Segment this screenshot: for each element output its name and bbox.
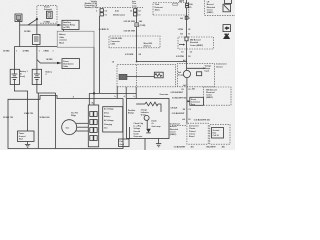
wire regulator ground 1: [144, 139, 146, 151]
wire relay pigtail: [63, 30, 65, 32]
svg-text:Volt: Volt: [178, 71, 182, 74]
theft deterrent dashed box: [153, 3, 189, 16]
svg-text:Junction: Junction: [59, 39, 68, 42]
svg-text:Power: Power: [63, 60, 69, 63]
svg-text:Gauge: Gauge: [178, 74, 184, 76]
wire battery2 drop: [36, 47, 38, 70]
svg-text:Ground: Ground: [134, 130, 141, 133]
wire cluster entry to gauge: [186, 64, 188, 70]
svg-text:Center: Center: [206, 94, 212, 97]
regulator internal label: [141, 108, 149, 116]
arrowhead into relay: [57, 24, 61, 26]
svg-text:Ground: Ground: [213, 129, 220, 132]
pin labels 13 C4 C1: [130, 9, 142, 17]
svg-text:(C3): (C3): [115, 10, 119, 12]
svg-text:Module (PCM): Module (PCM): [85, 7, 98, 9]
instrument cluster dashed box: [177, 64, 214, 87]
battery cable junction block label: [57, 31, 94, 47]
node starter solenoid stud: [36, 18, 38, 20]
svg-text:Used): Used): [20, 76, 26, 78]
svg-text:Charging: Charging: [104, 123, 112, 126]
svg-text:Electrical: Electrical: [170, 128, 179, 131]
resistor box: [154, 72, 163, 78]
wire diagonal from starter solenoid stud: [28, 19, 37, 25]
battery B2: [32, 69, 41, 84]
wire right column down: [186, 8, 188, 37]
svg-text:Center: Center: [170, 130, 176, 133]
svg-text:1 BLK/WHT: 1 BLK/WHT: [206, 146, 217, 148]
wire drop B+ terminal: [93, 93, 95, 105]
svg-text:Cluster: Cluster: [216, 65, 223, 68]
instrument cluster label: [216, 63, 227, 69]
svg-text:32 BLK 600: 32 BLK 600: [40, 117, 50, 119]
svg-text:32 BLK 750: 32 BLK 750: [3, 117, 13, 119]
svg-text:0.8 BLK: 0.8 BLK: [171, 108, 179, 110]
svg-text:32 RED: 32 RED: [24, 31, 31, 33]
pin wire b2: [135, 87, 137, 94]
svg-text:Alarm: Alarm: [155, 8, 161, 11]
svg-text:Battery: Battery: [59, 33, 66, 36]
fusible link icon: [223, 0, 232, 12]
wire inline box to bus: [36, 45, 38, 47]
inline connector box on solenoid feed: [33, 35, 41, 45]
svg-text:(UBEC): (UBEC): [207, 12, 214, 14]
svg-text:C2: C2: [105, 10, 107, 12]
svg-text:0.35 PNK: 0.35 PNK: [176, 56, 185, 58]
pin labels right of VCM pins: [96, 10, 125, 16]
svg-text:Lt + Wrg: Lt + Wrg: [134, 125, 141, 128]
generator rotor circle: [62, 120, 77, 135]
svg-text:Battery Relay: Battery Relay: [63, 24, 76, 27]
wire regulator feed drop: [135, 93, 137, 98]
svg-text:Battery 1: Battery 1: [20, 70, 28, 73]
splice connector on middle wire: [135, 23, 139, 27]
auxiliary battery relay box: [62, 20, 79, 29]
wire into cluster: [186, 49, 188, 62]
svg-text:0.35 BLK/WHT: 0.35 BLK/WHT: [172, 113, 185, 115]
svg-text:450: 450: [222, 145, 225, 148]
VCM / PCM module label: [85, 1, 98, 9]
svg-text:2: 2: [46, 74, 47, 76]
svg-text:1: 1: [16, 50, 17, 52]
arrowhead into PDC box: [57, 62, 62, 65]
svg-text:451: 451: [192, 88, 195, 91]
wire ground stud down: [27, 142, 29, 145]
svg-text:Solenoid: Solenoid: [44, 9, 52, 11]
svg-text:C2: C2: [188, 109, 190, 111]
svg-text:Generator: Generator: [160, 93, 169, 96]
svg-text:Ground: Ground: [19, 135, 26, 138]
pin labels right: [189, 3, 193, 9]
stator label: [128, 109, 143, 138]
wire lamp down: [146, 120, 148, 128]
svg-text:Bridge: Bridge: [128, 112, 134, 115]
VCM dashed bottom edge: [97, 7, 143, 9]
svg-text:Stud: Stud: [19, 137, 23, 140]
svg-text:Gen Lamp: Gen Lamp: [152, 126, 162, 128]
svg-text:28: 28: [188, 29, 190, 31]
svg-text:(C142): (C142): [140, 24, 146, 27]
svg-text:Or: Or: [152, 122, 154, 125]
battery warning icon: [223, 33, 230, 39]
svg-text:G8: G8: [139, 54, 141, 56]
svg-text:Electrical: Electrical: [190, 41, 199, 44]
svg-text:Dist: Dist: [213, 132, 217, 135]
svg-text:Cable: Cable: [59, 37, 64, 39]
MBEC dashed box 1: [178, 37, 214, 49]
wire driver to resistor: [127, 76, 154, 78]
pin wire d: [125, 87, 127, 99]
generator field label: [71, 112, 78, 116]
svg-text:Generator: Generator: [134, 135, 143, 138]
svg-text:F5: F5: [189, 7, 191, 9]
gauge trim box: [197, 72, 202, 76]
regulator case box: [127, 99, 169, 139]
voltmeter gauge circle: [183, 70, 190, 77]
dashed connector box C200: [109, 36, 160, 48]
svg-text:Electrical: Electrical: [207, 6, 216, 9]
svg-text:D8: D8: [183, 109, 185, 111]
wire regulator ground 2: [158, 139, 160, 144]
svg-text:Wired 200: Wired 200: [144, 42, 153, 45]
wire 18 RED branch: [37, 60, 57, 64]
svg-text:1: 1: [39, 50, 40, 52]
left dashed cluster sub-box: [117, 65, 176, 87]
generator case box: [8, 96, 123, 149]
regulator text box: [103, 107, 123, 132]
svg-text:0.8 BRN: 0.8 BRN: [99, 29, 107, 31]
wire K1 branch down to bus: [19, 25, 21, 47]
ground symbol regulator: [156, 144, 161, 147]
svg-text:(UBEC): (UBEC): [170, 134, 177, 136]
svg-text:C3: C3: [181, 51, 183, 53]
svg-text:C1: C1: [188, 18, 190, 20]
svg-text:Cable: Cable: [63, 66, 68, 68]
wire BRN horizontal into regulator: [89, 92, 136, 94]
svg-text:0.8 BLK/WHT: 0.8 BLK/WHT: [174, 146, 186, 148]
svg-text:32 RED: 32 RED: [23, 50, 30, 52]
svg-text:8 BLK 750: 8 BLK 750: [24, 113, 33, 115]
svg-text:Cluster: Cluster: [189, 127, 196, 130]
svg-text:0.35 BLK/WHT 451: 0.35 BLK/WHT 451: [194, 119, 210, 122]
wire middle bend east to cluster: [137, 62, 187, 64]
svg-text:Input: Input: [205, 70, 210, 73]
wire drop L terminal: [88, 93, 90, 105]
svg-text:C1: C1: [188, 33, 190, 35]
gauge left label: [178, 71, 184, 77]
svg-text:Instrument: Instrument: [216, 63, 227, 66]
svg-text:C1: C1: [105, 14, 107, 16]
svg-text:(Similar pins): (Similar pins): [113, 13, 125, 16]
diode label: [152, 121, 162, 128]
svg-text:0.35 BLK/WHT: 0.35 BLK/WHT: [171, 92, 184, 94]
svg-text:Cell 14: Cell 14: [213, 134, 220, 137]
svg-text:Board: Board: [189, 135, 194, 138]
svg-text:Grnd: Grnd: [120, 143, 124, 146]
svg-text:4 RED: 4 RED: [43, 49, 49, 52]
svg-text:Circuit: Circuit: [189, 132, 195, 135]
ground distribution dashed box: [187, 123, 208, 144]
VCM pin box C2: [100, 9, 103, 12]
wire right column lower: [186, 87, 188, 123]
wire gauge to cluster exit: [186, 78, 188, 87]
wire gauge signal arrow: [187, 67, 204, 69]
svg-text:Center: Center: [207, 8, 213, 11]
three-phase wires: [76, 123, 88, 131]
svg-text:Battery: Battery: [46, 71, 53, 74]
svg-text:Instrument: Instrument: [189, 125, 199, 128]
svg-text:Voltage: Voltage: [134, 127, 141, 130]
starter solenoid contact box: [47, 11, 53, 18]
pin wire b: [116, 87, 118, 99]
svg-text:Delco: Delco: [104, 112, 110, 114]
wire horizontal 73 RED run to relay: [20, 24, 58, 26]
power distribution cable box: [62, 59, 80, 69]
svg-text:451: 451: [191, 145, 194, 148]
battery bus wire: [14, 46, 57, 48]
svg-text:Center (MBEC): Center (MBEC): [190, 44, 203, 47]
indicator lamp circle: [144, 115, 149, 120]
svg-text:13: 13: [130, 10, 132, 12]
svg-text:C200: C200: [111, 43, 115, 45]
regulator resistor zigzag: [136, 102, 161, 112]
dashed divider: [136, 65, 138, 87]
svg-text:Pwr: Pwr: [120, 140, 124, 143]
svg-text:32 RED: 32 RED: [3, 50, 10, 52]
svg-text:Indicator: Indicator: [141, 111, 149, 114]
svg-text:1 PNK: 1 PNK: [178, 29, 184, 31]
wire splice down: [136, 27, 138, 62]
gauge signal label: [205, 64, 212, 72]
junction block K1 (top-left small box): [15, 14, 22, 22]
svg-text:Driver: Driver: [141, 114, 147, 117]
battery B2 label: [46, 71, 53, 77]
svg-text:0.8 BLK/WHT 451: 0.8 BLK/WHT 451: [172, 96, 187, 99]
starter solenoid dashed box: [37, 6, 57, 24]
svg-text:Frame: Frame: [19, 132, 25, 135]
arrow icon: [223, 25, 231, 32]
svg-text:Voltage: Voltage: [205, 64, 212, 67]
svg-text:0.35 DK GRN: 0.35 DK GRN: [124, 30, 136, 32]
svg-text:AC Voltage: AC Voltage: [104, 119, 114, 122]
instrument cluster mini label top-middle: [132, 0, 138, 7]
gauge driver dark box: [119, 74, 127, 79]
svg-text:C1: C1: [138, 14, 140, 16]
frame ground stud box: [18, 131, 35, 142]
svg-text:2: 2: [96, 10, 97, 12]
node middle bend: [136, 61, 138, 63]
svg-text:Electrical: Electrical: [206, 91, 215, 94]
svg-text:Connector: Connector: [111, 40, 121, 43]
svg-text:Wdgs: Wdgs: [71, 115, 76, 117]
svg-text:C2: C2: [188, 89, 190, 91]
battery B1: [10, 69, 19, 84]
svg-text:AC Voltage: AC Voltage: [104, 108, 114, 111]
wire middle column down: [136, 8, 138, 23]
UBEC lower label: [170, 123, 180, 136]
svg-text:Distribution: Distribution: [63, 62, 74, 65]
wire from K1 down: [19, 22, 21, 26]
MBEC dashed box 2: [204, 87, 232, 105]
wire bus corner down to generator: [93, 47, 95, 93]
svg-text:18 RED: 18 RED: [46, 59, 53, 61]
svg-text:Printed: Printed: [189, 130, 195, 133]
wire ground drop B: [55, 93, 57, 149]
wire right column from UBEC: [186, 0, 188, 3]
generator connector strip: [88, 105, 98, 147]
arrowhead gauge signal: [203, 67, 206, 69]
arrowhead to serial data box: [188, 100, 191, 102]
wire ground drop A: [37, 93, 39, 149]
svg-text:Charge: Charge: [141, 108, 147, 111]
svg-text:73 RED: 73 RED: [44, 22, 51, 24]
svg-text:346: 346: [139, 20, 142, 23]
diode D1: [146, 129, 151, 133]
UBEC pin box upper: [186, 3, 189, 5]
UBEC pin box lower: [186, 6, 189, 8]
page reference dashed box: [210, 124, 230, 144]
svg-text:HOT: HOT: [179, 1, 184, 3]
svg-text:1: 1: [53, 50, 54, 52]
battery B1 label: [20, 70, 28, 78]
svg-text:Deterrent: Deterrent: [155, 6, 164, 9]
svg-text:Theft: Theft: [155, 3, 160, 6]
dashed branch stub left of ground distribution box: [172, 124, 187, 126]
svg-text:C8: C8: [188, 119, 190, 121]
UBEC dashed box top right: [205, 0, 236, 15]
svg-text:C8: C8: [181, 89, 183, 91]
svg-text:Battery: Battery: [104, 115, 111, 118]
VCM pin box C1: [100, 13, 103, 16]
wire MBEC internal: [186, 41, 188, 49]
node junction on 4 RED: [93, 92, 95, 94]
svg-text:0.35 GRN: 0.35 GRN: [125, 54, 134, 56]
serial data box: [190, 97, 204, 106]
wire battery2 lower jog: [37, 85, 56, 94]
svg-text:(w/TP2): (w/TP2): [63, 27, 70, 29]
svg-text:0.35 DK GRN: 0.35 DK GRN: [124, 21, 136, 23]
svg-text:Antenna: Antenna: [144, 45, 152, 48]
svg-text:Rectifier: Rectifier: [128, 109, 136, 112]
wire battery1 drop: [13, 47, 15, 70]
svg-text:d: d: [124, 96, 125, 98]
svg-text:C3: C3: [190, 51, 192, 53]
wire VCM pin down (0.8 BRN 25): [99, 16, 101, 93]
svg-text:28: 28: [188, 56, 190, 58]
ground symbol (frame): [25, 144, 30, 147]
wire battery1 to ground stud: [14, 85, 27, 132]
wire solenoid stud down to inline box: [36, 19, 38, 34]
svg-text:(MBEC): (MBEC): [206, 97, 213, 99]
svg-text:25: 25: [107, 29, 109, 31]
